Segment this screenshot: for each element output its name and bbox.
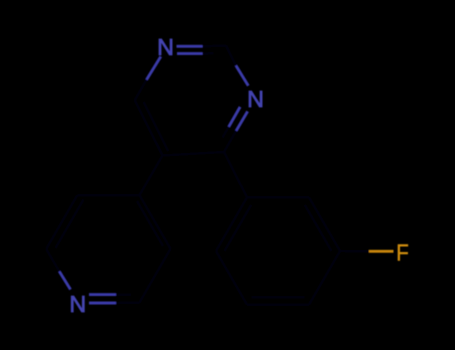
wire: phenyl bond A3-A4 dark xyxy=(309,251,340,305)
wire: pyrimidine bond C6-N1, N-half blue xyxy=(147,57,161,80)
wire: pyridine bond C4p-C5p dark xyxy=(77,194,139,197)
wire: pyridine bond C3p=C4p main line dark xyxy=(140,195,171,249)
wire: pyrimidine bond C5=C6 inner double line dark xyxy=(144,102,169,151)
wire: pyridine bond Np=C2p inner double line, N-half blue xyxy=(89,293,116,296)
wire: pyrimidine bond N3=C4 main line, N-half blue xyxy=(236,111,248,130)
wire: pyridine bond C6p-Np, C-half dark xyxy=(46,249,59,271)
wire: phenyl bond A2=A3 inner double line dark xyxy=(305,205,332,251)
wire: pyridine bond Np=C2p main line, C-half dark xyxy=(116,301,140,304)
wire: phenyl bond A2=A3 main line dark xyxy=(309,197,340,251)
wire: phenyl bond A6=A1 main line dark xyxy=(216,197,247,251)
wire: pyridine bond C2p-C3p dark xyxy=(140,249,171,303)
wire: pyrimidine bond C2-N3, C-half dark xyxy=(226,46,236,66)
wire: pyrimidine bond C6-N1, C-half dark xyxy=(135,80,147,101)
svg-text:N: N xyxy=(157,34,174,60)
wire: biaryl bond pyrimidine C4 - phenyl A1 dark xyxy=(224,152,247,197)
wire: phenyl bond A4=A5 inner double line dark xyxy=(252,296,305,299)
wire: pyrimidine bond N1=C2 inner double line, N-half blue xyxy=(177,52,203,55)
wire: pyrimidine bond N1=C2 inner double line, C-half dark xyxy=(203,52,214,55)
svg-text:N: N xyxy=(247,86,264,112)
wire: pyridine bond C5p=C6p inner double line dark xyxy=(56,200,84,249)
wire: pyrimidine bond N1=C2 main line, N-half blue xyxy=(177,45,203,48)
wire: bond A3-F, F-half orange xyxy=(369,250,394,253)
wire: pyridine bond Np=C2p main line, N-half blue xyxy=(89,302,116,305)
wire: pyrimidine bond N3=C4 inner double line, N-half blue xyxy=(229,107,240,127)
wire: phenyl bond A1-A2 dark xyxy=(247,196,309,199)
wire: pyrimidine bond N3=C4 main line, C-half dark xyxy=(224,131,236,152)
wire: phenyl bond A5-A6 dark xyxy=(216,251,247,305)
svg-text:N: N xyxy=(69,291,86,317)
wire: pyrimidine bond C5=C6 main line dark xyxy=(135,100,163,155)
wire: pyridine bond C5p=C6p main line dark xyxy=(46,195,77,249)
wire: pyrimidine bond C4-C5 dark xyxy=(163,152,225,156)
wire: pyridine bond C3p=C4p inner double line dark xyxy=(137,201,163,246)
wire: pyrimidine bond N1=C2 main line, C-half dark xyxy=(203,44,227,47)
wire: pyridine bond C6p-Np, N-half blue xyxy=(59,271,70,289)
wire: biaryl bond pyrimidine C5 - pyridine C4p dark xyxy=(140,156,163,196)
wire: bond A3-F, C-half dark xyxy=(340,250,369,253)
wire: phenyl bond A6=A1 inner double line dark xyxy=(225,205,252,251)
wire: phenyl bond A4=A5 main line dark xyxy=(247,303,309,306)
wire: pyrimidine bond C2-N3, N-half blue xyxy=(236,66,248,86)
svg-text:F: F xyxy=(396,239,409,266)
wire: pyrimidine bond N3=C4 inner double line, C-half dark xyxy=(223,127,229,138)
wire: pyridine bond Np=C2p inner double line, C-half dark xyxy=(116,293,131,296)
